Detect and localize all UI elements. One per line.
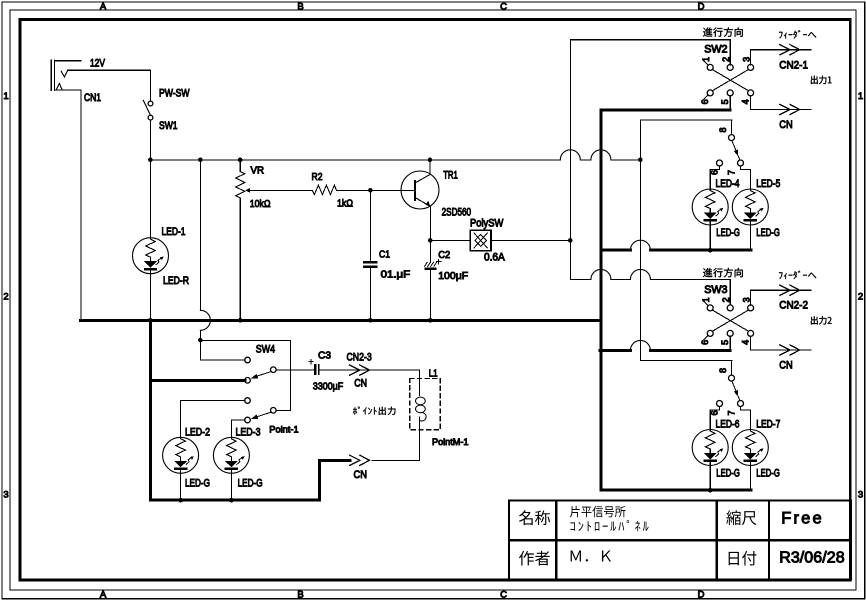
svg-text:B: B [297, 1, 303, 12]
svg-text:6: 6 [710, 170, 720, 175]
svg-text:LED-3: LED-3 [236, 427, 261, 439]
svg-text:R3/06/28: R3/06/28 [779, 550, 844, 567]
svg-text:CN2-2: CN2-2 [779, 300, 808, 312]
svg-text:CN: CN [354, 469, 368, 481]
svg-text:TR1: TR1 [443, 170, 458, 182]
svg-text:D: D [698, 1, 705, 12]
svg-text:B: B [297, 590, 303, 600]
svg-text:LED-5: LED-5 [756, 178, 780, 190]
svg-text:5: 5 [720, 99, 730, 104]
svg-text:2: 2 [721, 57, 731, 62]
svg-text:10kΩ: 10kΩ [250, 198, 271, 210]
svg-text:SW1: SW1 [159, 120, 178, 132]
svg-text:1: 1 [858, 91, 863, 102]
svg-text:CN: CN [779, 119, 792, 131]
svg-text:7: 7 [726, 170, 736, 175]
svg-text:LED-G: LED-G [185, 478, 210, 490]
svg-text:C: C [500, 590, 507, 600]
svg-text:CN1: CN1 [84, 92, 101, 104]
svg-text:0.6A: 0.6A [484, 252, 505, 264]
svg-text:2: 2 [858, 292, 863, 303]
svg-text:C3: C3 [318, 350, 331, 362]
svg-text:3: 3 [858, 490, 863, 501]
svg-text:8: 8 [718, 368, 728, 373]
svg-text:1: 1 [3, 91, 8, 102]
svg-text:R2: R2 [312, 171, 323, 183]
svg-text:LED-G: LED-G [756, 468, 780, 480]
svg-text:CN2-1: CN2-1 [779, 60, 808, 72]
svg-text:Point-1: Point-1 [269, 425, 298, 436]
svg-text:5: 5 [720, 340, 730, 345]
svg-text:4: 4 [741, 340, 751, 345]
svg-text:SW2: SW2 [704, 44, 727, 56]
svg-text:CN: CN [779, 359, 792, 371]
svg-text:C1: C1 [379, 249, 390, 261]
svg-text:CN2-3: CN2-3 [347, 352, 372, 364]
svg-text:2: 2 [721, 297, 731, 302]
svg-text:LED-4: LED-4 [716, 178, 740, 190]
svg-text:L1: L1 [429, 368, 438, 380]
svg-text:100μF: 100μF [438, 270, 468, 282]
svg-text:2SD560: 2SD560 [442, 207, 472, 219]
svg-text:8: 8 [718, 127, 728, 132]
svg-text:3300μF: 3300μF [313, 381, 343, 393]
svg-text:3: 3 [3, 490, 8, 501]
svg-text:6: 6 [700, 99, 710, 104]
svg-text:VR: VR [251, 166, 265, 177]
svg-text:12V: 12V [90, 58, 106, 70]
svg-text:LED-G: LED-G [716, 227, 740, 239]
svg-text:LED-G: LED-G [238, 478, 263, 490]
svg-text:SW3: SW3 [704, 284, 727, 296]
svg-text:LED-G: LED-G [716, 468, 740, 480]
svg-text:6: 6 [700, 340, 710, 345]
svg-text:C: C [500, 1, 507, 12]
svg-text:LED-G: LED-G [756, 227, 780, 239]
svg-text:PointM-1: PointM-1 [432, 437, 469, 448]
svg-text:2: 2 [3, 292, 8, 303]
svg-text:1: 1 [701, 57, 711, 62]
svg-text:CN: CN [354, 378, 367, 390]
svg-text:LED-6: LED-6 [716, 419, 740, 431]
svg-text:LED-R: LED-R [163, 275, 189, 287]
svg-text:C2: C2 [438, 249, 450, 261]
svg-text:PW-SW: PW-SW [159, 88, 190, 100]
svg-text:LED-7: LED-7 [756, 419, 780, 431]
svg-text:LED-2: LED-2 [185, 427, 210, 439]
svg-text:01.μF: 01.μF [381, 269, 411, 281]
svg-text:4: 4 [741, 99, 751, 104]
svg-text:LED-1: LED-1 [162, 226, 186, 238]
svg-text:PolySW: PolySW [470, 218, 504, 230]
svg-text:SW4: SW4 [256, 344, 275, 356]
svg-text:A: A [100, 590, 107, 600]
svg-text:Free: Free [781, 510, 821, 528]
svg-text:7: 7 [726, 410, 736, 415]
svg-text:1: 1 [701, 297, 711, 302]
svg-text:1kΩ: 1kΩ [337, 198, 353, 210]
svg-text:D: D [698, 590, 705, 600]
svg-text:A: A [100, 1, 107, 12]
svg-text:6: 6 [710, 410, 720, 415]
